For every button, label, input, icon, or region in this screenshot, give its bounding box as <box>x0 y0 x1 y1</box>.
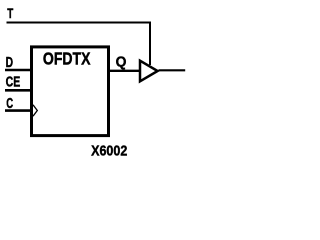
wire CE input <box>5 89 32 92</box>
svg-text:D: D <box>6 55 13 71</box>
svg-text:OFDTX: OFDTX <box>43 49 91 69</box>
svg-text:CE: CE <box>6 75 21 91</box>
flip-flop body OFDTX <box>32 47 109 136</box>
wire C input <box>5 109 32 112</box>
wire D input <box>5 69 32 72</box>
svg-text:Q: Q <box>116 54 127 70</box>
wire T net: horizontal run and vertical drop to buffer enable <box>7 23 151 66</box>
svg-text:T: T <box>7 5 13 21</box>
clock input marker <box>33 105 37 116</box>
tri-state buffer <box>140 61 158 82</box>
wire Q output <box>108 70 140 72</box>
svg-text:X6002: X6002 <box>91 142 127 159</box>
wire buffer output <box>159 69 186 71</box>
